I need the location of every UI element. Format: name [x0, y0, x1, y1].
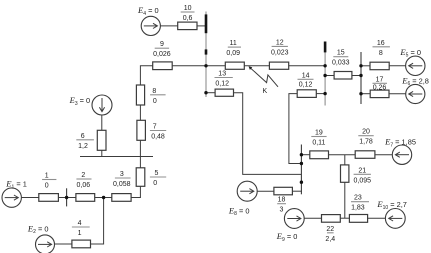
node N3-R16 junction [359, 64, 362, 67]
svg-text:0,12: 0,12 [215, 81, 229, 88]
svg-text:0,06: 0,06 [76, 182, 90, 189]
resistor R1 [39, 194, 59, 202]
svg-text:23: 23 [354, 195, 362, 202]
source E5 [406, 56, 425, 75]
resistor R4 [72, 240, 91, 248]
svg-text:0,12: 0,12 [299, 81, 313, 88]
resistor R5 [136, 168, 145, 187]
value label R21 21/0,095 [354, 167, 372, 184]
svg-text:0,026: 0,026 [153, 51, 171, 58]
value label R6 6/1,2 [76, 133, 94, 150]
svg-text:0,11: 0,11 [312, 140, 325, 147]
source E10 [385, 209, 405, 229]
svg-text:12: 12 [276, 39, 284, 46]
resistor R6 [97, 130, 106, 150]
resistor R19 [310, 151, 329, 159]
value label R17 17/0,26 [373, 76, 388, 91]
wire R19 to R20 [329, 154, 356, 156]
resistor R12 [269, 62, 288, 69]
svg-text:1: 1 [78, 230, 82, 237]
resistor R3 [112, 194, 131, 202]
resistor R21 [341, 165, 349, 182]
svg-text:14: 14 [302, 72, 310, 79]
resistor R15 [334, 72, 352, 80]
svg-text:1,2: 1,2 [78, 143, 88, 150]
wire R13 down to bus N4 [234, 93, 302, 175]
svg-text:11: 11 [230, 40, 237, 47]
wire bus N3 to R16 [361, 65, 370, 67]
svg-text:0: 0 [153, 98, 157, 105]
node N2-R12 junction [323, 64, 326, 67]
source E6 [406, 84, 425, 103]
svg-text:0,095: 0,095 [354, 177, 372, 184]
wire R19-R20 tap down to R21 [344, 155, 346, 165]
wire E4 to R10 [160, 25, 178, 27]
bus N1 generator bar [205, 14, 208, 33]
value label R7 7/0,48 [150, 124, 166, 141]
resistor R16 [370, 62, 389, 69]
value label R15 15/0,033 [332, 50, 350, 67]
svg-text:5: 5 [155, 170, 159, 177]
svg-text:1: 1 [45, 173, 49, 180]
source E8 [237, 181, 257, 201]
source E3 [92, 95, 112, 115]
value label R4 4/1 [72, 220, 90, 237]
bus node N2 vertical [324, 42, 326, 106]
wire R20 to E7 [375, 154, 393, 156]
svg-text:8: 8 [152, 88, 156, 95]
wire E3 to R6 [101, 115, 103, 130]
svg-text:20: 20 [362, 129, 370, 136]
wire E1 to R1 [21, 197, 38, 199]
source E4 [141, 16, 160, 35]
node N3-R17 junction [359, 92, 362, 95]
wire R7 through bus N5 to R5 [139, 140, 141, 168]
wire E9 to R22 [304, 217, 321, 219]
wire R10 to bus N1 [197, 25, 207, 27]
wire R1 to R2 [58, 197, 76, 199]
wire bus N1 to R11 [206, 65, 225, 67]
source E9 [284, 209, 304, 229]
bus tick between R1 and R2 [66, 188, 68, 206]
svg-text:15: 15 [337, 50, 345, 57]
svg-text:18: 18 [278, 197, 286, 204]
svg-text:4: 4 [78, 220, 82, 227]
wire bus N5 bar [80, 156, 153, 158]
value label R3 3/0,058 [113, 171, 131, 188]
svg-text:2,4: 2,4 [325, 236, 335, 243]
value label R2 2/0,06 [76, 172, 91, 189]
svg-text:7: 7 [153, 124, 157, 131]
wire R22 to R23 [340, 217, 349, 219]
wire R14 to bus N2 [316, 93, 325, 95]
source E2 [36, 235, 55, 253]
wire bus N3 to R17 [361, 93, 370, 95]
wire bus N1 to R13 [206, 92, 215, 94]
svg-text:1,83: 1,83 [351, 205, 365, 212]
value label R10 10/0,6 [181, 5, 195, 22]
svg-text:0: 0 [45, 183, 49, 190]
wire R21 down to row 22-23 [344, 182, 346, 218]
value label R1 1/0 [42, 173, 56, 190]
svg-text:10: 10 [184, 5, 192, 12]
resistor R11 [225, 62, 244, 69]
wire E8 to R18 [257, 190, 274, 192]
svg-text:13: 13 [218, 71, 226, 78]
source E1 [2, 188, 21, 207]
wire R23 to E10 [368, 217, 386, 219]
svg-text:16: 16 [377, 40, 385, 47]
resistor R18 [274, 187, 293, 195]
wire R5 down to row node [139, 186, 141, 197]
resistor R9 [153, 62, 173, 70]
wire R16 to E5 [389, 65, 406, 67]
bus node N3 vertical [360, 52, 362, 104]
svg-text:8: 8 [379, 50, 383, 57]
bus N2 bar [324, 42, 327, 53]
wire R2 to R3 [95, 197, 112, 199]
wire R3 to R5 node [131, 197, 141, 199]
node R1-R2 junction [65, 196, 68, 199]
value label R16 16/8 [373, 40, 390, 57]
value label R18 18/3 [277, 197, 286, 214]
value label R5 5/0 [150, 170, 166, 187]
value label R8 8/0 [150, 88, 166, 105]
wire R18 to bus N4 [292, 190, 302, 192]
node node B (R2-R3-R4) [102, 196, 105, 199]
svg-text:0,033: 0,033 [332, 60, 350, 67]
wire R9 to bus N1 [172, 65, 205, 67]
wire R17 to E6 [389, 93, 406, 95]
svg-text:0,09: 0,09 [226, 50, 240, 57]
svg-text:0,26: 0,26 [373, 85, 387, 92]
svg-text:1,78: 1,78 [359, 139, 373, 146]
node N1-R13 junction [204, 91, 207, 94]
wire node B down to R4 [91, 198, 104, 245]
value label R22 22/2,4 [325, 226, 335, 243]
node N1-R9 junction [204, 64, 207, 67]
bus node N4 vertical [300, 145, 302, 195]
wire bus N2 to R15 [325, 75, 334, 77]
svg-text:0,6: 0,6 [183, 15, 193, 22]
resistor R22 [322, 215, 341, 223]
svg-text:6: 6 [81, 133, 85, 140]
svg-text:3: 3 [280, 207, 284, 214]
value label R11 11/0,09 [226, 40, 241, 57]
value label R14 14/0,12 [298, 72, 314, 88]
value label R20 20/1,78 [358, 129, 373, 146]
wire R6 to bus N5 [101, 150, 103, 156]
node N2-R14 junction [323, 92, 326, 95]
resistor R10 [178, 22, 197, 30]
node N4-R19 junction [300, 153, 303, 156]
wire R12 to bus N2 [289, 65, 325, 67]
wire E2 to R4 [55, 243, 72, 245]
svg-text:9: 9 [160, 41, 164, 48]
value label R19 19/0,11 [311, 130, 326, 147]
wire R9 left down to R8 [140, 66, 152, 85]
resistor R8 [136, 85, 144, 105]
svg-text:19: 19 [315, 130, 323, 137]
value label R12 12/0,023 [271, 39, 289, 56]
value label R13 13/0,12 [215, 71, 233, 88]
node N4 junction [300, 181, 303, 184]
resistor R7 [137, 120, 146, 140]
node N4-R14 branch junction [300, 162, 303, 165]
wire R15 to bus N3 [352, 75, 361, 77]
resistor R14 [297, 90, 316, 98]
source E7 [392, 145, 411, 164]
short-circuit arrow K [249, 66, 279, 87]
svg-text:2: 2 [81, 172, 85, 179]
svg-text:17: 17 [376, 76, 384, 83]
bus N1 tick [205, 49, 208, 54]
bus node N1 vertical [205, 12, 207, 98]
resistor R20 [355, 151, 375, 159]
svg-text:21: 21 [358, 167, 366, 174]
svg-text:0,48: 0,48 [151, 134, 165, 141]
resistor R2 [76, 194, 95, 202]
node N2-R15 junction [323, 74, 326, 77]
wire R8 to R7 [139, 105, 141, 120]
value label R9 9/0,026 [153, 41, 171, 58]
node N3-R15 junction [359, 74, 362, 77]
resistor R23 [349, 215, 367, 223]
resistor R13 [215, 89, 233, 96]
wire R11 to R12 (fault point) [244, 65, 269, 67]
svg-text:K: K [263, 88, 268, 95]
svg-text:0: 0 [153, 180, 157, 187]
svg-text:0,023: 0,023 [271, 49, 289, 56]
wire R14 down to bus N4 [289, 94, 302, 164]
svg-text:0,058: 0,058 [113, 181, 131, 188]
svg-text:3: 3 [120, 171, 124, 178]
value label R23 23/1,83 [351, 195, 369, 212]
wire bus N4 to R19 [301, 154, 309, 156]
svg-text:22: 22 [326, 226, 334, 233]
resistor R17 [370, 90, 389, 98]
